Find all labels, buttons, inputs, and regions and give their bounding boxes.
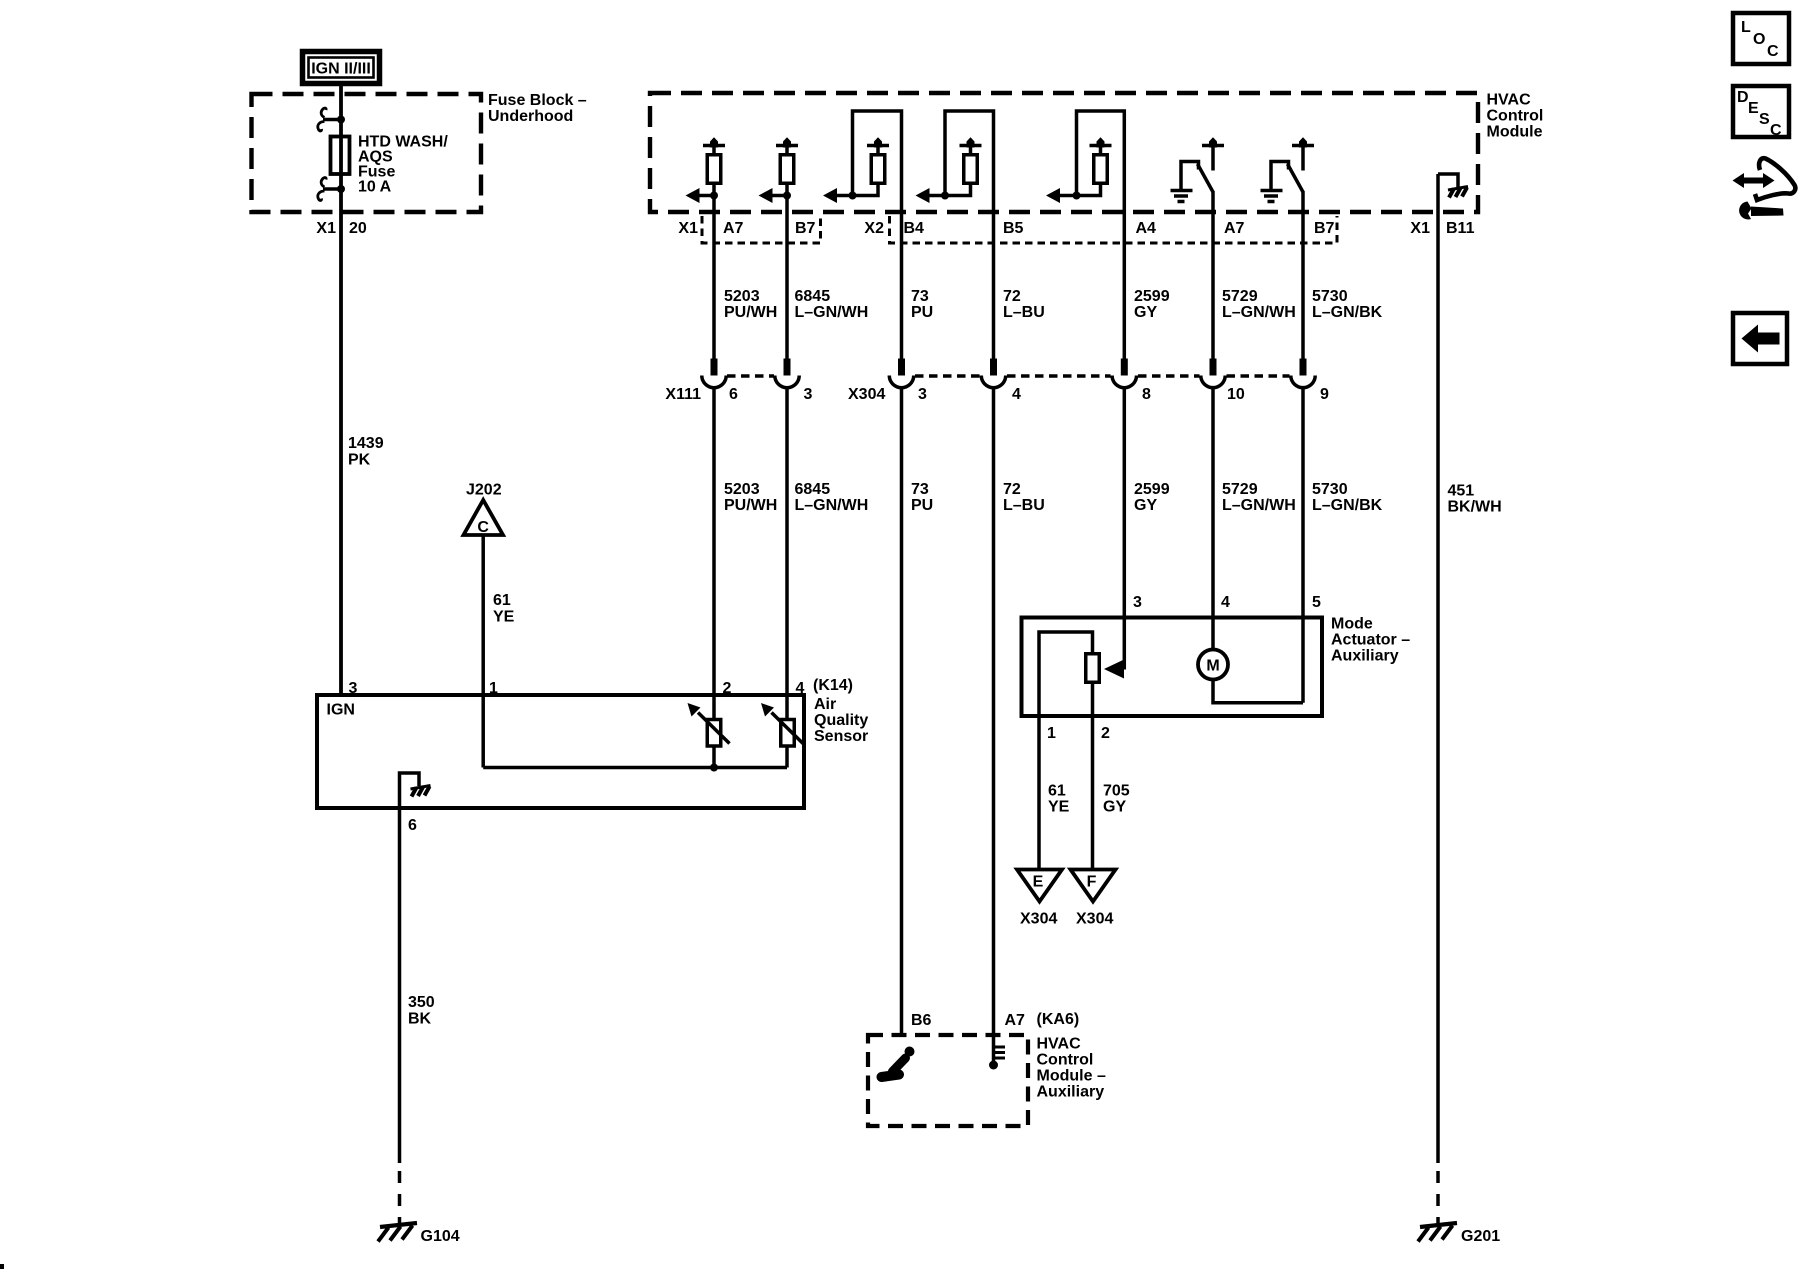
svg-text:X304: X304 [1020, 911, 1057, 928]
svg-text:Module –: Module – [1037, 1068, 1106, 1085]
connector sub-box X1 A7/B7 [702, 216, 821, 243]
fuse block underhood dashed box [252, 94, 482, 212]
wire elbow to resistor column 5 [1059, 181, 1101, 196]
fuse clip terminal lower [318, 178, 345, 201]
signal out arrow column 2 [759, 188, 788, 203]
svg-text:X2: X2 [864, 220, 884, 237]
label Fuse Block - Underhood [488, 92, 587, 125]
wire 2599 GY to mode actuator pin 3 [1123, 388, 1127, 670]
svg-text:F: F [1087, 874, 1097, 891]
wire label 705 GY (mode) [1103, 783, 1130, 816]
junction column 2 [783, 192, 791, 200]
svg-text:HVAC: HVAC [1037, 1036, 1082, 1053]
svg-text:O: O [1753, 31, 1765, 48]
svg-text:B6: B6 [911, 1012, 932, 1029]
svg-text:72: 72 [1003, 481, 1021, 498]
junction column 5 [1073, 192, 1081, 200]
svg-text:X304: X304 [848, 386, 885, 403]
inline connector X304 pin 4 [981, 359, 1005, 388]
svg-text:G104: G104 [421, 1228, 460, 1245]
wire 5729 L-GN/WH to mode actuator pin 4 [1211, 388, 1215, 651]
label HTD WASH/AQS Fuse 10 A [358, 134, 448, 196]
connector dash X304 3-4 [915, 374, 980, 378]
seat icon (inside KA6) [882, 1047, 915, 1078]
connector dash X304 10-9 [1227, 374, 1290, 378]
wire 451 BK/WH from B11 to G201 [1436, 174, 1440, 1163]
signal out arrow column 3 [823, 188, 837, 203]
svg-text:C: C [1767, 43, 1779, 60]
svg-text:PU: PU [911, 304, 933, 321]
svg-text:C: C [1770, 122, 1782, 139]
wire label 6845 L-GN/WH (upper) [795, 288, 869, 321]
wire 61 YE from J202 to AQS pin 1 [481, 537, 485, 768]
svg-text:705: 705 [1103, 783, 1130, 800]
svg-text:J202: J202 [466, 482, 502, 499]
svg-text:Actuator –: Actuator – [1331, 632, 1410, 649]
wire label 73 PU (lower) [911, 481, 933, 514]
switch 2 (pin B7 right) [1261, 137, 1315, 201]
battery feed symbol column 2 [776, 137, 798, 147]
svg-text:2: 2 [1101, 725, 1110, 742]
svg-text:GY: GY [1103, 799, 1126, 816]
icon box LOC [1733, 13, 1789, 64]
junction column 4 [941, 192, 949, 200]
battery feed symbol column 5 [1090, 137, 1112, 156]
wire 5730 L-GN/BK to mode actuator pin 5 [1301, 388, 1305, 703]
wire loop column 3 (pin B4) [853, 111, 902, 372]
internal ground elbow AQS [400, 773, 420, 808]
svg-text:PU: PU [911, 497, 933, 514]
svg-text:10: 10 [1227, 386, 1245, 403]
battery feed symbol column 1 [703, 137, 725, 147]
svg-text:451: 451 [1448, 483, 1475, 500]
svg-text:IGN II/III: IGN II/III [311, 61, 371, 78]
svg-text:X111: X111 [665, 386, 701, 403]
ground G104 [378, 1223, 417, 1242]
svg-text:5730: 5730 [1312, 288, 1348, 305]
svg-text:Sensor: Sensor [814, 728, 868, 745]
svg-text:L–BU: L–BU [1003, 497, 1045, 514]
svg-text:5729: 5729 [1222, 288, 1258, 305]
wire label 72 L-BU (lower) [1003, 481, 1045, 514]
inline connector X304 pin 10 [1201, 359, 1225, 388]
wire label 61 YE (mode) [1048, 783, 1070, 816]
svg-text:Underhood: Underhood [488, 108, 573, 125]
connector dash X111 [727, 374, 774, 378]
svg-text:Mode: Mode [1331, 616, 1373, 633]
svg-text:4: 4 [1012, 386, 1021, 403]
svg-text:72: 72 [1003, 288, 1021, 305]
wire motor bottom elbow to pin 5 [1213, 680, 1303, 703]
dashed wire to G201 [1436, 1171, 1440, 1225]
wire label 5729 L-GN/WH (lower) [1222, 481, 1296, 514]
svg-text:1: 1 [1047, 725, 1056, 742]
svg-text:3: 3 [1133, 594, 1142, 611]
resistor column 3 [871, 155, 885, 184]
svg-text:2599: 2599 [1134, 288, 1170, 305]
svg-text:Auxiliary: Auxiliary [1037, 1084, 1105, 1101]
connector dash X304 8-10 [1138, 374, 1200, 378]
svg-text:Module: Module [1487, 124, 1543, 141]
wire 350 BK to G104 [398, 808, 402, 1163]
signal out arrow column 4 [916, 188, 930, 203]
signal out arrow column 1 [686, 188, 715, 203]
svg-text:G201: G201 [1461, 1228, 1500, 1245]
inline connector X304 pin 3 [889, 359, 913, 388]
wire label 2599 GY (upper) [1134, 288, 1170, 321]
icon wiring repair (arrows and wrench) [1733, 158, 1796, 219]
inline connector X304 pin 8 [1112, 359, 1136, 388]
junction column 3 [849, 192, 857, 200]
svg-text:9: 9 [1320, 386, 1329, 403]
wire label 61 YE (J202) [493, 592, 515, 626]
signal out arrow column 5 [1046, 188, 1060, 203]
wire label 5203 PU/WH (upper) [724, 288, 777, 321]
HVAC Control Module dashed box [650, 93, 1478, 212]
splice triangle E [1017, 870, 1062, 902]
variable resistor AQS pin 2 [688, 703, 730, 746]
variable resistor AQS pin 4 [761, 703, 803, 746]
svg-text:L–GN/BK: L–GN/BK [1312, 304, 1383, 321]
svg-text:S: S [1759, 111, 1770, 128]
svg-text:L–GN/WH: L–GN/WH [795, 497, 869, 514]
wire label 73 PU (upper) [911, 288, 933, 321]
page artifact dot [0, 1264, 4, 1269]
svg-text:A7: A7 [723, 220, 744, 237]
wiper arrow (pin 3 to potentiometer) [1104, 660, 1124, 679]
svg-text:(K14): (K14) [813, 677, 853, 694]
wire label 2599 GY (lower) [1134, 481, 1170, 514]
svg-text:1439: 1439 [348, 435, 384, 452]
wire module output pin B7 (column 2) [785, 147, 789, 372]
power feed tag IGN II/III [303, 52, 380, 84]
connector sub-box X2 B4..B7 [890, 216, 1338, 243]
wire label 5730 L-GN/BK (upper) [1312, 288, 1383, 321]
wire potentiometer to pin 2 [1091, 682, 1095, 869]
resistor column 4 [964, 155, 978, 184]
svg-text:L: L [1741, 19, 1751, 36]
resistor column 1 [707, 155, 721, 184]
svg-text:X1: X1 [678, 220, 698, 237]
wire label 350 BK [408, 994, 435, 1028]
potentiometer loop wire (pins 1/2) [1039, 632, 1093, 869]
mode actuator auxiliary box [1022, 618, 1323, 717]
svg-text:GY: GY [1134, 497, 1157, 514]
internal wire AQS bus [483, 766, 787, 770]
wire label 5203 PU/WH (lower) [724, 481, 777, 514]
svg-text:A4: A4 [1136, 220, 1157, 237]
svg-text:BK: BK [408, 1011, 432, 1028]
svg-text:Air: Air [814, 696, 836, 713]
svg-text:PU/WH: PU/WH [724, 497, 777, 514]
svg-text:A7: A7 [1005, 1012, 1026, 1029]
svg-text:X304: X304 [1076, 911, 1113, 928]
temperature sensor symbol (inside KA6) [989, 1047, 1005, 1070]
wire label 1439 PK [348, 435, 384, 469]
wire 5203 PU/WH to AQS pin 2 [712, 388, 716, 768]
svg-text:5: 5 [1312, 594, 1321, 611]
svg-text:6845: 6845 [795, 288, 831, 305]
ground G201 [1418, 1223, 1457, 1242]
wire elbow to resistor column 4 [929, 181, 971, 196]
svg-text:6: 6 [408, 817, 417, 834]
svg-text:E: E [1033, 874, 1044, 891]
svg-text:E: E [1748, 100, 1759, 117]
wire 72 L-BU to KA6 pin A7 [992, 388, 996, 1063]
wire label 451 BK/WH [1448, 483, 1502, 516]
wire 73 PU to KA6 pin B6 [900, 388, 904, 1036]
svg-text:A7: A7 [1224, 220, 1245, 237]
svg-text:Control: Control [1487, 108, 1544, 125]
svg-text:3: 3 [804, 386, 813, 403]
svg-text:5203: 5203 [724, 481, 760, 498]
battery feed symbol column 4 [960, 137, 982, 156]
fuse HTD WASH/AQS 10 A [331, 137, 350, 175]
svg-text:IGN: IGN [327, 702, 355, 719]
label HVAC Control Module [1487, 92, 1544, 141]
svg-text:Auxiliary: Auxiliary [1331, 648, 1399, 665]
svg-text:2599: 2599 [1134, 481, 1170, 498]
module internal ground symbol B11 [1448, 187, 1468, 198]
HVAC control module auxiliary dashed box [868, 1035, 1028, 1126]
label Air Quality Sensor [814, 696, 868, 745]
svg-text:YE: YE [493, 609, 515, 626]
svg-text:B7: B7 [795, 220, 816, 237]
inline connector X111 pin 6 [702, 359, 726, 388]
inline connector X304 pin 9 [1291, 359, 1315, 388]
icon box back arrow [1733, 313, 1787, 364]
svg-text:M: M [1206, 658, 1219, 675]
inline connector X111 pin 3 [775, 359, 799, 388]
svg-text:Quality: Quality [814, 712, 868, 729]
svg-text:73: 73 [911, 481, 929, 498]
svg-text:5729: 5729 [1222, 481, 1258, 498]
battery feed symbol column 3 [867, 137, 889, 156]
svg-text:6845: 6845 [795, 481, 831, 498]
svg-text:61: 61 [1048, 783, 1066, 800]
svg-text:5203: 5203 [724, 288, 760, 305]
svg-text:6: 6 [729, 386, 738, 403]
label Mode Actuator - Auxiliary [1331, 616, 1410, 665]
motor M circle [1198, 650, 1228, 680]
air quality sensor K14 box [317, 695, 804, 808]
potentiometer resistor [1086, 654, 1100, 683]
module internal ground elbow at pin B11 [1438, 174, 1458, 187]
wire label 5729 L-GN/WH (upper) [1222, 288, 1296, 321]
svg-text:L–GN/WH: L–GN/WH [795, 304, 869, 321]
svg-text:PK: PK [348, 452, 371, 469]
svg-text:3: 3 [918, 386, 927, 403]
label HVAC Control Module - Auxiliary [1037, 1036, 1106, 1101]
wire label 5730 L-GN/BK (lower) [1312, 481, 1383, 514]
svg-text:L–GN/WH: L–GN/WH [1222, 304, 1296, 321]
splice triangle F [1071, 870, 1116, 902]
svg-text:GY: GY [1134, 304, 1157, 321]
svg-text:BK/WH: BK/WH [1448, 499, 1502, 516]
wire label 72 L-BU (upper) [1003, 288, 1045, 321]
svg-text:X1: X1 [1410, 220, 1430, 237]
svg-text:PU/WH: PU/WH [724, 304, 777, 321]
svg-text:C: C [477, 519, 489, 536]
svg-text:HVAC: HVAC [1487, 92, 1532, 109]
wire module output pin A7 (column 1) [712, 147, 716, 372]
svg-text:61: 61 [493, 592, 511, 609]
resistor column 2 [780, 155, 794, 184]
svg-text:20: 20 [349, 220, 367, 237]
connector dash X304 4-8 [1007, 374, 1111, 378]
svg-text:4: 4 [1221, 594, 1230, 611]
switch 1 (pin A7 right) [1171, 137, 1225, 201]
fuse clip terminal upper [318, 108, 345, 131]
svg-text:(KA6): (KA6) [1037, 1011, 1080, 1028]
wire elbow to resistor column 3 [836, 181, 878, 196]
svg-text:10 A: 10 A [358, 179, 392, 196]
svg-text:Fuse Block –: Fuse Block – [488, 92, 587, 109]
svg-text:Control: Control [1037, 1052, 1094, 1069]
svg-text:5730: 5730 [1312, 481, 1348, 498]
svg-text:L–GN/BK: L–GN/BK [1312, 497, 1383, 514]
wire from IGN II/III through fuse to AQS pin 3 (1439 PK) [339, 84, 343, 695]
wire 6845 L-GN/WH to AQS pin 4 [785, 388, 789, 768]
internal ground symbol AQS [411, 786, 431, 797]
wire switch 2 to pin B7 [1301, 191, 1305, 372]
junction column 1 [710, 192, 718, 200]
wire loop column 5 (pin A4) [1077, 111, 1125, 372]
svg-text:8: 8 [1142, 386, 1151, 403]
icon box DESC [1733, 86, 1789, 139]
wire loop column 4 (pin B5) [945, 111, 994, 372]
svg-text:350: 350 [408, 994, 435, 1011]
wire switch 1 to pin A7 [1211, 191, 1215, 372]
resistor column 5 [1094, 155, 1108, 184]
svg-text:X1: X1 [316, 220, 336, 237]
svg-text:L–BU: L–BU [1003, 304, 1045, 321]
svg-text:B7: B7 [1314, 220, 1335, 237]
svg-text:L–GN/WH: L–GN/WH [1222, 497, 1296, 514]
wire label 6845 L-GN/WH (lower) [795, 481, 869, 514]
svg-text:73: 73 [911, 288, 929, 305]
svg-text:B11: B11 [1446, 220, 1475, 237]
svg-text:YE: YE [1048, 799, 1070, 816]
splice triangle J202 C [464, 500, 504, 536]
junction AQS pin2/bus [710, 764, 718, 772]
svg-text:B4: B4 [904, 220, 925, 237]
svg-text:B5: B5 [1003, 220, 1024, 237]
dashed wire to G104 [398, 1171, 402, 1225]
svg-text:D: D [1737, 89, 1749, 106]
